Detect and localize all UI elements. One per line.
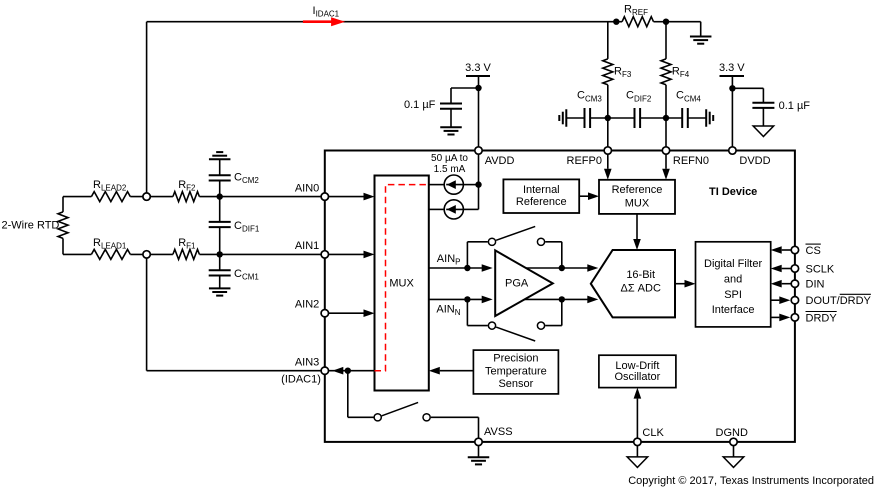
pin DRDY (active low)	[791, 312, 837, 325]
resistor RREF	[616, 17, 666, 27]
svg-text:REFP0: REFP0	[567, 155, 602, 167]
current source IDAC1 (upper)	[429, 175, 464, 194]
svg-text:(IDAC1): (IDAC1)	[281, 374, 321, 386]
pin REFP0	[567, 147, 612, 167]
block Precision Temperature Sensor	[473, 350, 558, 394]
op-amp PGA	[495, 250, 553, 316]
svg-text:0.1 µF: 0.1 µF	[779, 100, 811, 112]
block Internal Reference	[503, 179, 579, 213]
pin DGND	[716, 427, 748, 446]
svg-text:AVDD: AVDD	[485, 155, 515, 167]
capacitor CDIF1	[209, 197, 231, 255]
pin CS (active low)	[791, 244, 821, 257]
ground below AVSS	[468, 446, 490, 464]
node: DVDD cap junction	[729, 85, 735, 91]
node: RREF right junction	[663, 19, 669, 25]
svg-text:0.1 µF: 0.1 µF	[404, 99, 436, 111]
wire: PGA output upper to ADC	[526, 264, 598, 272]
svg-text:DVDD: DVDD	[739, 155, 770, 167]
wire: AIN1 net horizontal	[63, 253, 321, 255]
switch: PGA bypass lower	[467, 299, 561, 341]
wire: DIN into digital filter	[771, 280, 795, 288]
wire: AIN0 into MUX	[325, 193, 375, 201]
svg-text:AVSS: AVSS	[484, 426, 513, 438]
svg-text:and: and	[724, 273, 742, 285]
svg-text:Oscillator: Oscillator	[614, 371, 660, 383]
ground below CCM1	[209, 288, 231, 295]
svg-text:REFN0: REFN0	[673, 155, 709, 167]
node: REFN0 filter junction	[663, 115, 669, 121]
pin DOUT/DRDY (active low)	[791, 294, 871, 307]
wire: AIN1 into MUX	[325, 251, 375, 259]
pin AIN1	[295, 240, 329, 258]
wire: IDAC1 left vertical to AIN0 node	[146, 22, 148, 197]
ground (sideways) left of CCM3	[559, 109, 566, 127]
wire: reference mux to ADC	[633, 214, 641, 250]
svg-text:Temperature: Temperature	[485, 365, 547, 377]
wire: IDAC1 red dashed route through MUX	[375, 185, 429, 371]
node B: AIN1 filter junction	[217, 251, 223, 257]
node: RREF left junction	[613, 19, 619, 25]
svg-text:3.3 V: 3.3 V	[719, 62, 745, 74]
svg-text:AIN0: AIN0	[295, 182, 319, 194]
wire: RREF right to ground	[666, 22, 701, 37]
wire: AIN2 into MUX	[325, 309, 375, 317]
pin AIN0	[295, 182, 329, 200]
wire: REFN0 into reference mux	[662, 151, 670, 180]
wire: CLK to oscillator	[634, 388, 642, 442]
wire: DVDD vertical	[731, 76, 733, 151]
node: junction circle on AIN1 net	[143, 251, 150, 258]
svg-text:3.3 V: 3.3 V	[465, 62, 491, 74]
resistor RLEAD2	[91, 192, 130, 202]
pin AIN3 (IDAC1)	[281, 357, 328, 386]
svg-text:1.5 mA: 1.5 mA	[434, 164, 466, 175]
capacitor CDIF2	[608, 108, 666, 128]
wire: AINN from MUX to PGA	[429, 296, 493, 304]
wire: AINP from MUX to PGA	[429, 264, 493, 272]
svg-text:Reference: Reference	[516, 196, 567, 208]
ground (sideways) right of CCM4	[706, 109, 713, 127]
TI device outline box	[325, 151, 795, 442]
capacitor CCM3	[566, 108, 608, 128]
wire: IDAC1 top wire	[147, 21, 617, 23]
wire: REFP0 branch vertical	[607, 22, 609, 151]
wire: DOUT/DRDY out of digital filter	[771, 296, 791, 304]
svg-text:Reference: Reference	[612, 184, 663, 196]
capacitor CCM2	[209, 159, 231, 196]
svg-text:SCLK: SCLK	[806, 264, 835, 276]
pin AVSS	[475, 426, 513, 446]
node: AINP junction	[464, 265, 470, 271]
block Digital Filter and SPI Interface	[696, 242, 771, 327]
node: junction circle on AIN0 net	[143, 193, 150, 200]
svg-text:TI Device: TI Device	[709, 186, 757, 198]
wire: temp sensor to MUX	[429, 367, 474, 375]
ground at RREF right	[690, 37, 712, 44]
svg-text:SPI: SPI	[724, 289, 742, 301]
wire: PGA output lower to ADC	[525, 296, 599, 304]
svg-text:Internal: Internal	[523, 184, 560, 196]
adc block 16-Bit Delta-Sigma ADC	[591, 250, 675, 317]
current arrow IIDAC1 (red)	[303, 17, 345, 26]
svg-text:Digital Filter: Digital Filter	[704, 258, 762, 270]
pin AVDD	[475, 147, 515, 167]
supply 3.3V (AVDD)	[465, 62, 491, 76]
capacitor CCM4	[666, 108, 706, 128]
node A: AIN0 filter junction	[217, 193, 223, 199]
svg-text:AIN2: AIN2	[295, 299, 319, 311]
node: AINN junction	[464, 296, 470, 302]
wire: REFP0 into reference mux	[604, 151, 612, 180]
svg-text:16-Bit: 16-Bit	[626, 269, 655, 281]
resistor RF4	[661, 59, 671, 85]
svg-text:Precision: Precision	[493, 353, 538, 365]
pin DIN	[791, 279, 824, 291]
resistor RF1	[173, 249, 200, 259]
svg-text:DGND: DGND	[716, 427, 748, 439]
current source IDAC2 (lower)	[429, 200, 464, 219]
pin DVDD	[729, 147, 771, 167]
wire: current sources to AVDD	[463, 181, 481, 209]
ground (triangle) below CLK	[627, 446, 648, 467]
svg-text:MUX: MUX	[625, 198, 650, 210]
ground above CCM2	[209, 152, 231, 159]
resistor RF2	[173, 192, 200, 202]
supply 3.3V (DVDD)	[719, 62, 745, 76]
svg-text:Copyright © 2017, Texas Instru: Copyright © 2017, Texas Instruments Inco…	[628, 475, 874, 487]
svg-text:AIN3: AIN3	[295, 357, 319, 369]
ground below AVDD cap	[440, 127, 462, 134]
capacitor 0.1uF (DVDD)	[732, 88, 774, 126]
switch: IDAC to AVSS	[348, 371, 479, 442]
svg-text:CS: CS	[806, 245, 821, 257]
svg-text:ΔΣ ADC: ΔΣ ADC	[620, 283, 660, 295]
resistor RLEAD1	[91, 249, 130, 259]
node: AVDD cap junction	[475, 85, 481, 91]
switch: PGA bypass upper	[467, 226, 561, 268]
block Low-Drift Oscillator	[599, 355, 676, 387]
svg-text:2-Wire RTD: 2-Wire RTD	[2, 220, 60, 232]
wire: SCLK into digital filter	[771, 265, 795, 273]
svg-text:DRDY: DRDY	[806, 312, 838, 324]
capacitor CCM1	[209, 254, 231, 288]
node: REFP0 filter junction	[605, 115, 611, 121]
resistor RTD (2-Wire RTD)	[58, 197, 68, 255]
mux block MUX	[375, 176, 429, 391]
wire: CS into digital filter	[771, 246, 795, 254]
wire: internal ref to reference mux	[579, 192, 599, 200]
svg-text:Interface: Interface	[712, 304, 755, 316]
pin SCLK	[791, 264, 835, 276]
wire: AIN0 net horizontal	[63, 196, 321, 198]
ground (triangle) below DGND	[723, 446, 744, 467]
wire: DRDY out of digital filter	[771, 314, 791, 322]
block Reference MUX	[599, 180, 675, 214]
wire: AIN1 node vertical down to AIN3	[147, 254, 321, 370]
wire: AIN3/IDAC1 out of MUX	[325, 367, 375, 375]
label 50uA to 1.5mA	[431, 153, 468, 175]
wire: ADC to digital filter	[675, 280, 696, 288]
wire: REFN0 branch vertical	[665, 22, 667, 151]
svg-text:MUX: MUX	[389, 277, 414, 289]
svg-text:PGA: PGA	[505, 278, 529, 290]
svg-text:DOUT/DRDY: DOUT/DRDY	[806, 295, 872, 307]
svg-text:Sensor: Sensor	[498, 378, 533, 390]
svg-text:CLK: CLK	[642, 427, 664, 439]
ground (triangle) below DVDD cap	[753, 126, 774, 137]
pin AIN2	[295, 299, 329, 317]
svg-text:50 µA to: 50 µA to	[431, 153, 468, 164]
pin REFN0	[662, 147, 709, 167]
pin CLK	[634, 427, 665, 446]
wire: AVDD vertical	[478, 76, 480, 185]
svg-text:AIN1: AIN1	[295, 240, 319, 252]
svg-text:DIN: DIN	[806, 279, 825, 291]
resistor RF3	[603, 59, 613, 85]
capacitor 0.1uF (AVDD)	[440, 88, 479, 127]
